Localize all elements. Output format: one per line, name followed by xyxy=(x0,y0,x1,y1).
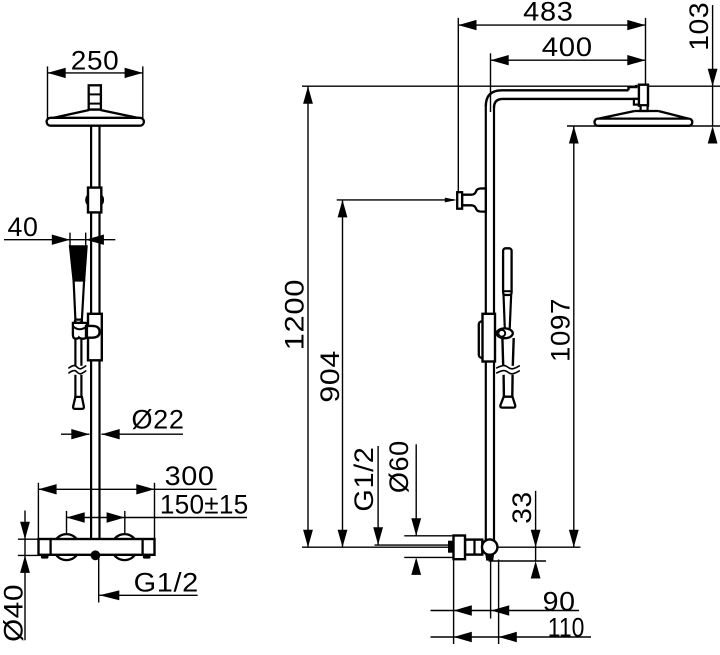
svg-text:400: 400 xyxy=(542,32,593,62)
svg-text:110: 110 xyxy=(548,613,585,643)
svg-text:Ø60: Ø60 xyxy=(384,440,414,493)
svg-text:904: 904 xyxy=(315,350,345,403)
svg-text:Ø22: Ø22 xyxy=(132,404,185,434)
svg-text:G1/2: G1/2 xyxy=(349,447,379,512)
svg-text:250: 250 xyxy=(71,46,120,76)
svg-text:103: 103 xyxy=(684,2,714,51)
svg-text:G1/2: G1/2 xyxy=(134,568,199,598)
svg-text:40: 40 xyxy=(8,212,39,242)
svg-text:33: 33 xyxy=(507,491,537,524)
svg-text:1200: 1200 xyxy=(280,279,310,351)
svg-text:300: 300 xyxy=(165,461,215,491)
svg-text:483: 483 xyxy=(523,0,573,27)
svg-text:1097: 1097 xyxy=(546,298,576,362)
svg-text:150±15: 150±15 xyxy=(160,490,249,520)
